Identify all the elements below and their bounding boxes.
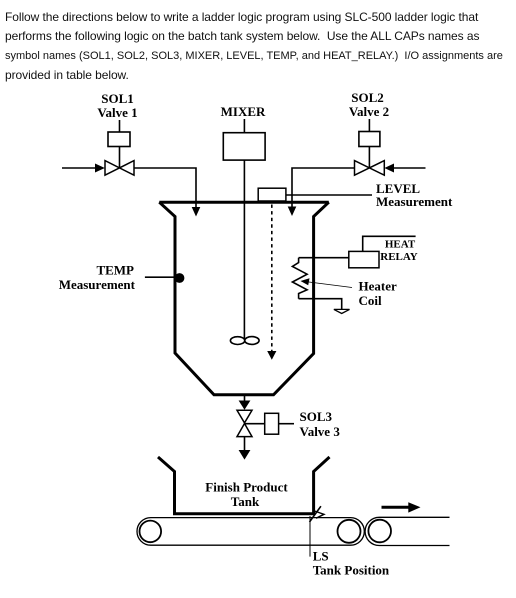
- heater coil zigzag: [292, 258, 307, 299]
- heat relay box: [349, 251, 379, 267]
- svg-text:Tank Position: Tank Position: [313, 562, 390, 577]
- limit switch lever: [310, 506, 321, 522]
- outflow arrow: [239, 450, 251, 460]
- pipe inlet left: [62, 167, 96, 169]
- svg-text:SOL3: SOL3: [300, 409, 333, 424]
- limit switch wire: [309, 516, 311, 557]
- propeller blade left: [230, 337, 244, 345]
- finish product tank: [158, 457, 330, 514]
- wire stem SOL1 label to actuator: [119, 120, 121, 132]
- flow arrow right: [95, 164, 105, 173]
- flow arrow down SOL1: [192, 207, 201, 217]
- svg-text:Coil: Coil: [359, 293, 383, 308]
- heater bottom wire: [299, 299, 342, 310]
- svg-text:Finish Product: Finish Product: [205, 480, 288, 495]
- svg-text:MIXER: MIXER: [221, 104, 266, 119]
- roller left: [140, 521, 162, 543]
- valve SOL1 bowtie: [105, 161, 134, 176]
- leader line heater coil: [305, 282, 352, 288]
- heat relay wire: [363, 236, 416, 251]
- svg-text:Valve 1: Valve 1: [97, 105, 137, 120]
- outlet wire: [244, 396, 246, 401]
- flow arrow left: [384, 164, 394, 173]
- wire stem MIXER label to motor: [243, 119, 245, 133]
- roller belt 2: [368, 520, 391, 543]
- direction arrow: [382, 502, 421, 512]
- svg-text:Heater: Heater: [359, 278, 397, 293]
- heater top wire: [299, 257, 349, 259]
- TEMP probe dot: [175, 273, 185, 283]
- level probe arrow: [267, 351, 276, 360]
- svg-text:Valve 2: Valve 2: [349, 104, 389, 119]
- conveyor belt 1: [137, 518, 364, 546]
- batch tank rim: [159, 201, 328, 204]
- motor box MIXER: [223, 133, 265, 160]
- level probe dashed line: [271, 205, 273, 352]
- wire level sensor to label: [286, 194, 372, 196]
- batch tank body: [159, 202, 328, 395]
- pipe SOL1 to tank: [134, 168, 196, 208]
- svg-text:RELAY: RELAY: [380, 251, 418, 263]
- valve SOL3 top triangle: [237, 410, 252, 423]
- actuator box SOL1: [108, 132, 130, 147]
- ground: [334, 309, 350, 313]
- outflow wire: [244, 437, 246, 451]
- wire valve to actuator SOL3: [245, 423, 265, 425]
- svg-text:Measurement: Measurement: [59, 277, 136, 292]
- conveyor belt 2: [365, 517, 449, 545]
- svg-text:HEAT: HEAT: [385, 239, 416, 251]
- mixer shaft: [243, 160, 245, 339]
- pipe SOL2 to tank: [292, 168, 355, 207]
- wire stem SOL2 label to actuator: [368, 119, 370, 132]
- svg-text:TEMP: TEMP: [96, 263, 134, 278]
- limit switch flag: [315, 511, 325, 518]
- roller right: [338, 520, 361, 543]
- wire TEMP probe: [145, 276, 175, 278]
- wire stem SOL1 actuator to valve: [119, 147, 121, 169]
- svg-text:Tank: Tank: [231, 494, 260, 509]
- wire stem SOL2 actuator to valve: [368, 147, 370, 169]
- svg-text:Measurement: Measurement: [376, 194, 453, 209]
- svg-text:SOL1: SOL1: [101, 91, 134, 106]
- level sensor box: [258, 188, 286, 201]
- svg-text:Valve 3: Valve 3: [300, 424, 341, 439]
- svg-text:LS: LS: [313, 548, 329, 563]
- valve SOL2 bowtie: [355, 161, 385, 176]
- wire actuator to label SOL3: [279, 423, 294, 425]
- propeller blade right: [245, 337, 259, 345]
- pipe inlet right: [394, 167, 426, 169]
- actuator box SOL2: [359, 132, 380, 147]
- leader arrowhead: [301, 278, 310, 285]
- actuator box SOL3: [265, 413, 279, 434]
- svg-text:SOL2: SOL2: [351, 90, 384, 105]
- flow arrow down SOL2: [288, 207, 297, 217]
- valve SOL3 bottom triangle: [237, 424, 252, 437]
- outlet arrow: [239, 401, 251, 410]
